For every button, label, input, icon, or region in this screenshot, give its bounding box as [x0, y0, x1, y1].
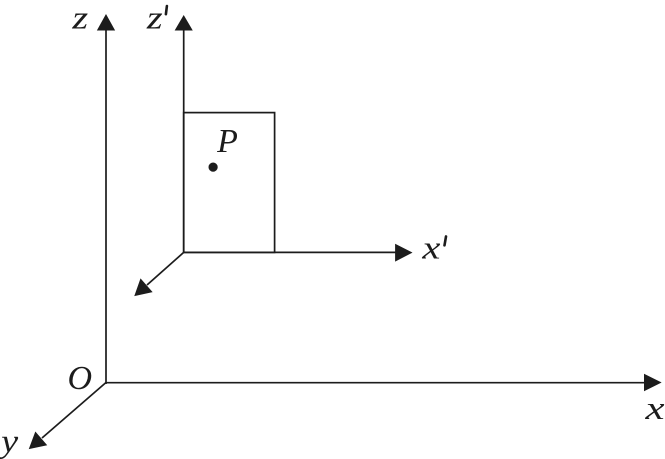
svg-text:O: O [68, 360, 93, 397]
svg-text:z: z [71, 1, 88, 37]
svg-text:P: P [216, 123, 238, 160]
point P dot [209, 163, 218, 172]
prime of x' [445, 237, 447, 246]
x axis [106, 375, 661, 391]
z axis [98, 15, 115, 384]
y' axis (unlabeled diagonal of primed frame) [135, 252, 184, 295]
svg-text:x: x [644, 391, 665, 427]
svg-text:y: y [0, 424, 18, 459]
svg-text:z: z [146, 1, 163, 37]
rectangle [184, 113, 275, 253]
z' axis [176, 16, 192, 252]
y axis [30, 383, 107, 449]
x' axis [184, 245, 412, 261]
prime of z' [166, 6, 167, 14]
svg-text:x: x [421, 231, 441, 267]
